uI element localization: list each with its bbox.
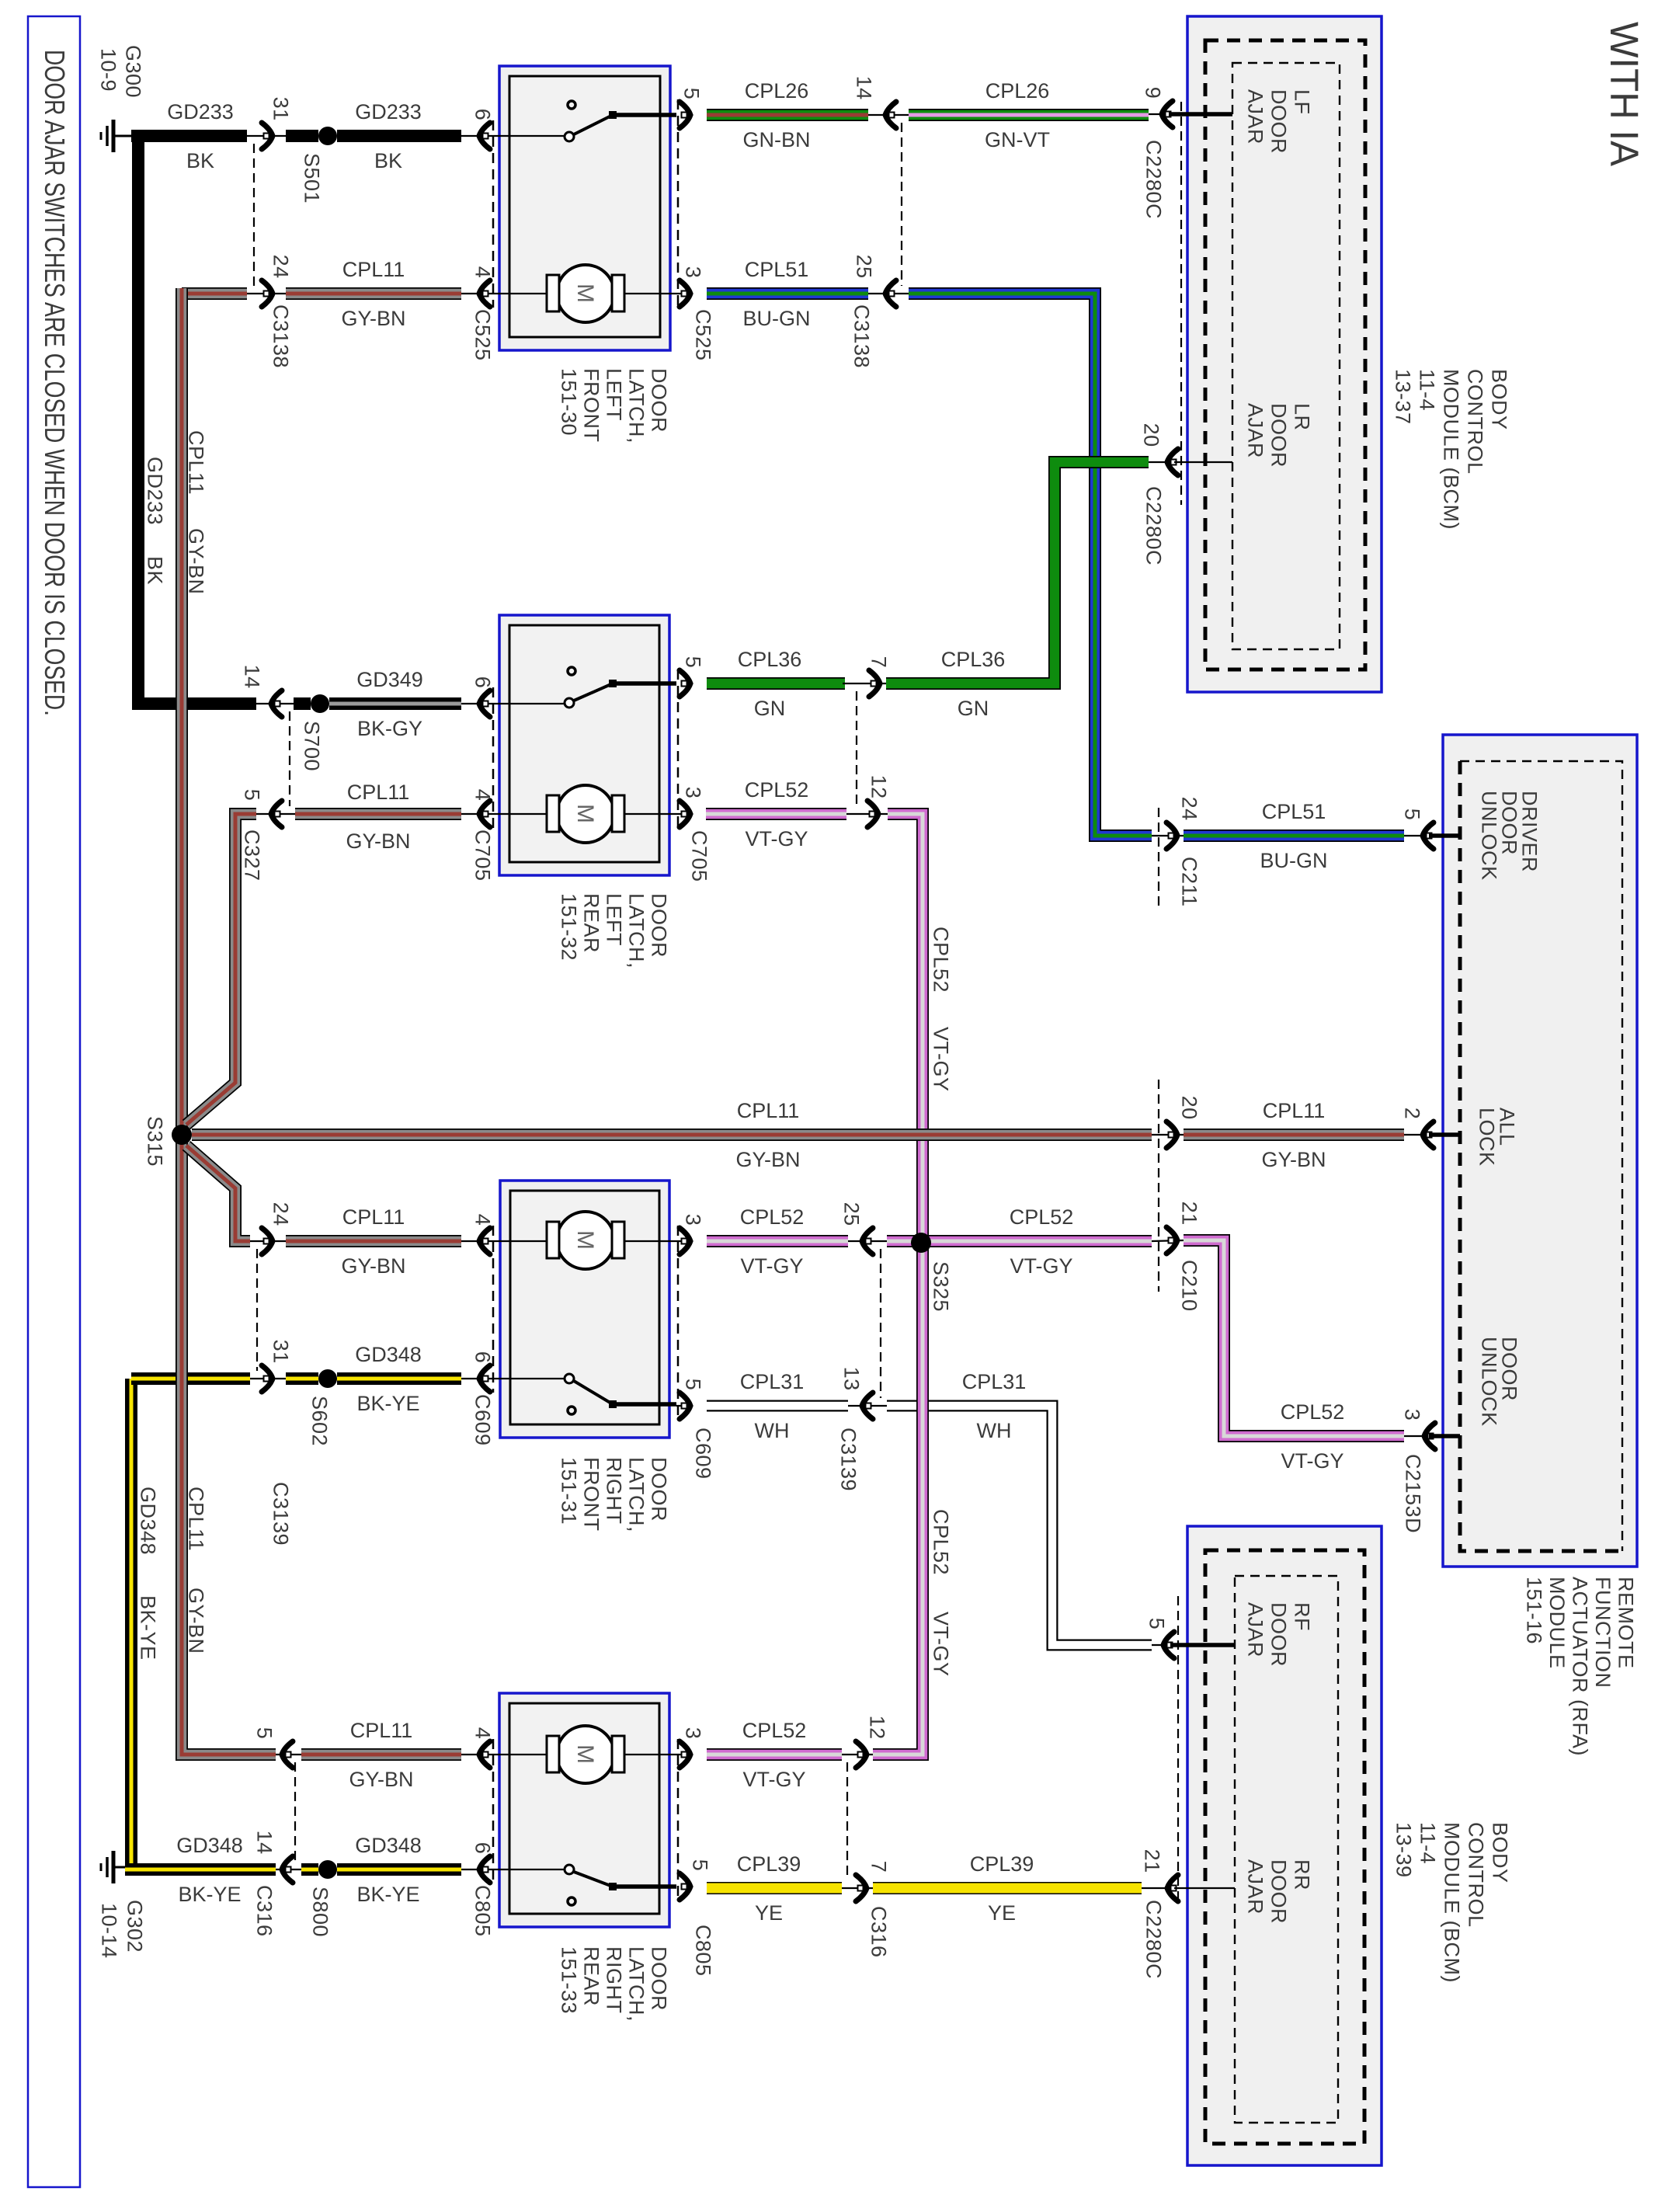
svg-text:CPL52: CPL52 [1010,1205,1074,1229]
svg-text:GD233: GD233 [144,457,167,525]
svg-text:CPL11: CPL11 [350,1719,413,1742]
svg-text:REMOTE: REMOTE [1615,1577,1638,1669]
svg-text:3: 3 [682,1214,705,1226]
svg-text:LATCH,: LATCH, [625,1457,648,1532]
svg-text:RR: RR [1291,1859,1314,1890]
svg-text:DOOR: DOOR [1267,403,1291,468]
svg-text:4: 4 [471,789,495,802]
svg-text:C211: C211 [1178,857,1201,907]
svg-text:RIGHT: RIGHT [603,1457,626,1525]
svg-text:DOOR: DOOR [648,1457,671,1522]
svg-text:C2280C: C2280C [1142,486,1166,565]
svg-text:DOOR: DOOR [1267,1602,1291,1667]
svg-text:CPL39: CPL39 [970,1852,1034,1876]
svg-text:5: 5 [1401,809,1424,821]
svg-text:14: 14 [253,1831,276,1855]
svg-text:CPL39: CPL39 [737,1852,801,1876]
svg-text:GD233: GD233 [167,100,234,123]
svg-text:CPL52: CPL52 [742,1719,807,1742]
svg-text:C210: C210 [1178,1260,1201,1312]
svg-text:6: 6 [471,1842,495,1855]
svg-text:WITH IA: WITH IA [1602,22,1646,166]
svg-text:GD233: GD233 [355,100,422,123]
svg-text:FRONT: FRONT [580,368,603,442]
svg-text:VT-GY: VT-GY [742,1768,805,1791]
svg-text:CPL31: CPL31 [740,1370,805,1393]
svg-text:151-33: 151-33 [558,1946,581,2014]
svg-text:BODY: BODY [1488,369,1511,430]
svg-text:3: 3 [1401,1409,1424,1421]
svg-text:S315: S315 [144,1116,167,1167]
svg-text:BODY: BODY [1489,1822,1512,1883]
svg-text:CPL26: CPL26 [745,79,809,103]
svg-text:25: 25 [853,255,876,279]
svg-text:C2280C: C2280C [1142,140,1166,219]
svg-text:BU-GN: BU-GN [743,307,811,330]
svg-text:C609: C609 [692,1428,715,1480]
svg-text:20: 20 [1140,423,1163,447]
svg-text:12: 12 [867,775,891,799]
svg-text:C316: C316 [253,1885,276,1937]
svg-text:GD348: GD348 [176,1834,243,1857]
svg-text:M: M [572,1744,598,1764]
svg-text:S700: S700 [301,721,324,771]
svg-text:CPL11: CPL11 [185,430,208,495]
svg-text:C805: C805 [692,1925,715,1977]
svg-text:13-37: 13-37 [1392,369,1415,425]
svg-text:BK: BK [374,149,402,172]
svg-text:M: M [572,804,598,823]
svg-text:REAR: REAR [580,893,603,953]
svg-text:REAR: REAR [580,1946,603,2006]
svg-text:C3138: C3138 [269,304,293,368]
svg-text:GY-BN: GY-BN [341,307,405,330]
svg-text:GN-VT: GN-VT [985,128,1050,151]
svg-text:CPL51: CPL51 [745,258,809,281]
svg-text:11-4: 11-4 [1416,1822,1440,1864]
svg-text:RIGHT: RIGHT [603,1946,626,2014]
svg-text:MODULE (BCM): MODULE (BCM) [1440,369,1463,530]
svg-text:CPL11: CPL11 [342,1205,405,1229]
svg-text:AJAR: AJAR [1244,89,1267,144]
svg-text:MODULE (BCM): MODULE (BCM) [1441,1822,1464,1983]
svg-text:GY-BN: GY-BN [1261,1148,1326,1171]
svg-text:YE: YE [988,1901,1016,1925]
svg-text:C805: C805 [471,1885,495,1937]
svg-text:UNLOCK: UNLOCK [1478,791,1501,881]
svg-text:6: 6 [471,109,495,121]
svg-text:C2153D: C2153D [1402,1454,1425,1533]
svg-text:LEFT: LEFT [603,893,626,946]
svg-text:VT-GY: VT-GY [1010,1254,1072,1278]
svg-text:GN: GN [754,697,786,720]
svg-text:14: 14 [853,76,876,100]
svg-text:CONTROL: CONTROL [1465,1822,1488,1928]
svg-text:24: 24 [269,255,293,279]
svg-text:11-4: 11-4 [1416,369,1439,411]
svg-text:DOOR AJAR SWITCHES ARE CLOSED: DOOR AJAR SWITCHES ARE CLOSED WHEN DOOR … [39,50,71,716]
svg-text:DOOR: DOOR [648,368,671,433]
svg-text:S325: S325 [930,1261,953,1312]
svg-text:7: 7 [867,1861,891,1873]
svg-text:BK-YE: BK-YE [178,1883,241,1906]
svg-text:CPL11: CPL11 [347,781,410,804]
svg-text:12: 12 [866,1716,889,1740]
svg-text:S800: S800 [309,1887,332,1937]
svg-text:LF: LF [1291,89,1314,115]
svg-text:GY-BN: GY-BN [341,1254,405,1278]
svg-text:BK-YE: BK-YE [137,1595,160,1661]
svg-text:LEFT: LEFT [603,368,626,421]
svg-text:BU-GN: BU-GN [1260,849,1328,872]
svg-text:GY-BN: GY-BN [735,1148,800,1171]
svg-text:7: 7 [867,656,891,669]
svg-text:151-32: 151-32 [558,893,581,961]
svg-text:GY-BN: GY-BN [349,1768,413,1791]
svg-text:DOOR: DOOR [648,893,671,958]
svg-text:31: 31 [269,1340,293,1364]
svg-text:3: 3 [682,266,705,279]
svg-text:4: 4 [471,266,495,279]
svg-text:CPL52: CPL52 [1281,1400,1345,1424]
svg-text:GN: GN [958,697,989,720]
svg-text:S602: S602 [308,1396,332,1446]
svg-text:M: M [572,283,598,303]
svg-text:C705: C705 [471,829,495,882]
svg-text:5: 5 [241,789,264,802]
svg-text:DOOR: DOOR [1267,1859,1291,1924]
svg-text:3: 3 [682,787,705,799]
svg-text:CPL36: CPL36 [738,648,802,671]
svg-text:C3138: C3138 [850,304,874,368]
svg-text:AJAR: AJAR [1244,1602,1267,1657]
svg-text:LATCH,: LATCH, [625,368,648,443]
svg-text:6: 6 [471,1351,495,1364]
svg-text:4: 4 [471,1727,495,1740]
svg-text:C3139: C3139 [837,1428,860,1491]
svg-text:25: 25 [840,1202,864,1226]
svg-text:GD348: GD348 [137,1487,160,1555]
svg-text:CPL31: CPL31 [962,1370,1027,1393]
svg-text:151-16: 151-16 [1523,1577,1546,1644]
svg-text:BK-YE: BK-YE [356,1392,419,1415]
svg-text:C609: C609 [471,1394,495,1446]
svg-text:DOOR: DOOR [1267,89,1291,154]
svg-text:CPL26: CPL26 [985,79,1050,103]
svg-text:5: 5 [689,1859,712,1872]
svg-text:LATCH,: LATCH, [625,893,648,969]
svg-text:LOCK: LOCK [1476,1108,1499,1167]
svg-text:13-39: 13-39 [1392,1822,1416,1878]
svg-text:VT-GY: VT-GY [1281,1449,1343,1473]
svg-text:BK-YE: BK-YE [356,1883,419,1906]
svg-text:24: 24 [269,1202,293,1226]
svg-text:CONTROL: CONTROL [1464,369,1487,475]
svg-text:13: 13 [840,1367,864,1391]
svg-text:10-14: 10-14 [98,1903,121,1959]
svg-text:GN-BN: GN-BN [743,128,811,151]
svg-text:10-9: 10-9 [97,48,120,92]
svg-text:6: 6 [471,676,495,689]
svg-text:21: 21 [1178,1202,1201,1226]
svg-text:VT-GY: VT-GY [930,1612,953,1677]
svg-text:BK: BK [144,556,167,585]
svg-text:WH: WH [977,1419,1012,1442]
svg-text:WH: WH [755,1419,790,1442]
svg-text:GY-BN: GY-BN [346,829,410,853]
svg-text:5: 5 [682,1379,705,1391]
svg-text:VT-GY: VT-GY [745,827,808,850]
svg-text:4: 4 [471,1214,495,1226]
svg-text:5: 5 [1145,1618,1169,1630]
svg-text:S501: S501 [301,153,324,203]
svg-text:CPL36: CPL36 [941,648,1006,671]
svg-text:21: 21 [1141,1849,1164,1873]
svg-text:CPL52: CPL52 [740,1205,805,1229]
svg-text:3: 3 [682,1727,705,1740]
svg-text:CPL51: CPL51 [1262,800,1326,823]
svg-text:C327: C327 [241,829,264,882]
svg-text:5: 5 [253,1727,276,1740]
svg-text:VT-GY: VT-GY [930,1027,953,1092]
svg-text:BK-GY: BK-GY [357,717,422,740]
svg-text:VT-GY: VT-GY [740,1254,803,1278]
svg-text:GY-BN: GY-BN [185,528,208,595]
svg-text:GD349: GD349 [356,668,423,691]
svg-text:MODULE: MODULE [1545,1577,1569,1669]
svg-text:LR: LR [1291,403,1314,431]
svg-text:CPL11: CPL11 [342,258,405,281]
svg-text:5: 5 [682,656,705,669]
svg-text:2: 2 [1401,1108,1424,1120]
svg-text:LATCH,: LATCH, [625,1946,648,2022]
svg-text:BK: BK [186,149,214,172]
svg-text:24: 24 [1178,797,1201,821]
svg-text:CPL52: CPL52 [930,927,953,993]
svg-text:FRONT: FRONT [580,1457,603,1531]
svg-text:5: 5 [680,88,704,100]
svg-text:9: 9 [1142,87,1165,99]
svg-text:M: M [572,1230,598,1250]
svg-text:C2280C: C2280C [1142,1900,1166,1979]
svg-text:AJAR: AJAR [1244,1859,1267,1915]
svg-text:AJAR: AJAR [1244,403,1267,458]
svg-text:31: 31 [269,97,293,121]
svg-text:G302: G302 [123,1900,147,1953]
svg-text:FUNCTION: FUNCTION [1591,1577,1615,1688]
svg-text:C525: C525 [692,309,715,361]
svg-text:YE: YE [755,1901,783,1925]
svg-text:C525: C525 [471,309,495,361]
svg-text:CPL11: CPL11 [737,1099,800,1122]
svg-text:C316: C316 [867,1906,891,1958]
svg-text:GD348: GD348 [355,1343,422,1366]
svg-text:CPL52: CPL52 [930,1509,953,1575]
svg-text:G300: G300 [122,45,145,98]
svg-text:CPL11: CPL11 [1263,1099,1326,1122]
svg-text:151-31: 151-31 [558,1457,581,1525]
svg-text:GY-BN: GY-BN [185,1588,208,1654]
svg-text:20: 20 [1178,1096,1201,1120]
svg-text:ACTUATOR (RFA): ACTUATOR (RFA) [1569,1577,1592,1756]
svg-text:CPL11: CPL11 [185,1487,208,1551]
svg-text:GD348: GD348 [355,1834,422,1857]
svg-text:DOOR: DOOR [648,1946,671,2011]
svg-text:CPL52: CPL52 [745,778,809,802]
svg-text:C705: C705 [688,830,711,882]
svg-text:C3139: C3139 [269,1482,293,1546]
svg-text:151-30: 151-30 [558,368,581,436]
svg-text:RF: RF [1291,1602,1314,1631]
svg-text:UNLOCK: UNLOCK [1478,1337,1501,1427]
svg-text:14: 14 [241,665,264,689]
